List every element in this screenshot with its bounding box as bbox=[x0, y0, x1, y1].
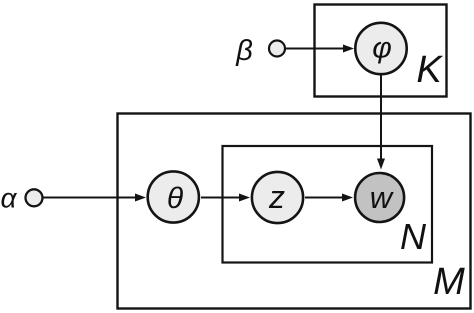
svg-text:φ: φ bbox=[372, 32, 392, 65]
svg-text:α: α bbox=[1, 183, 18, 214]
svg-text:β: β bbox=[235, 35, 253, 67]
svg-text:N: N bbox=[400, 216, 427, 257]
svg-text:w: w bbox=[370, 180, 395, 215]
svg-text:M: M bbox=[433, 261, 465, 303]
svg-text:z: z bbox=[268, 179, 285, 215]
svg-text:K: K bbox=[416, 49, 443, 91]
svg-text:θ: θ bbox=[167, 182, 184, 215]
